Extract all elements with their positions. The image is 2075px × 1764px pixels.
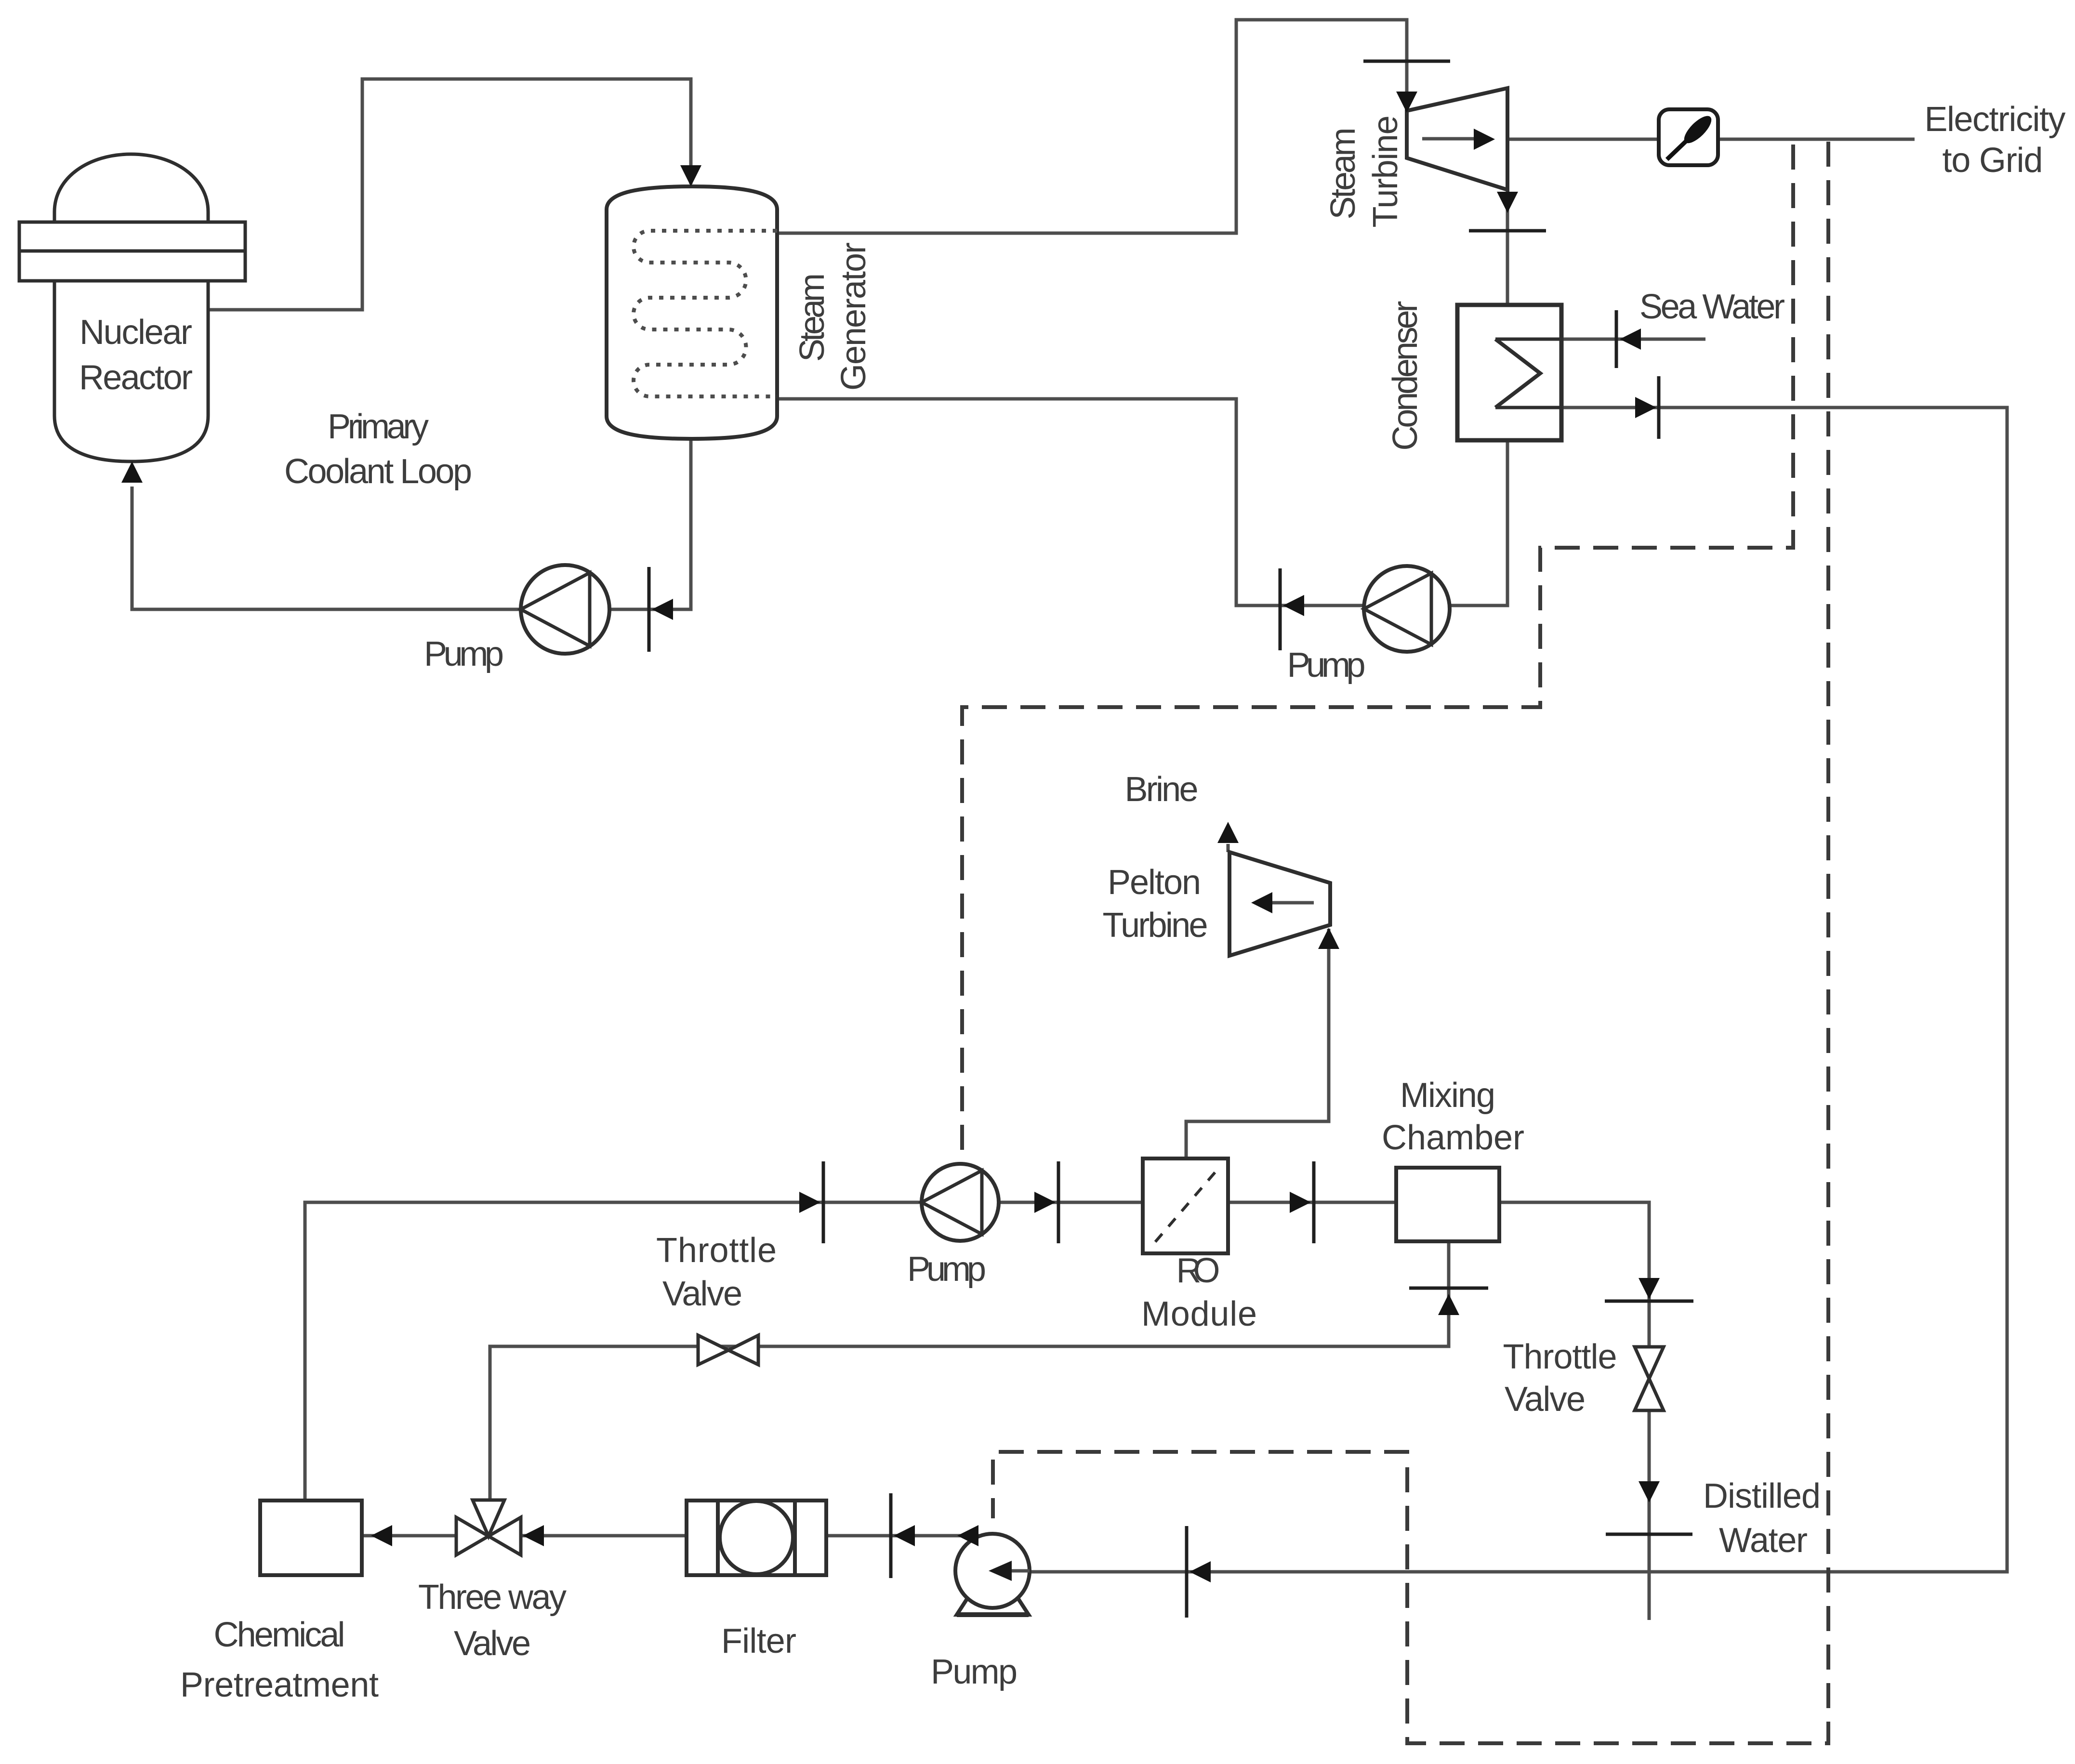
svg-text:Pump: Pump bbox=[424, 635, 504, 673]
svg-text:Valve: Valve bbox=[454, 1624, 531, 1663]
svg-text:RO: RO bbox=[1176, 1251, 1220, 1290]
svg-text:Electricity: Electricity bbox=[1925, 100, 2066, 139]
svg-text:Turbine: Turbine bbox=[1103, 906, 1208, 945]
svg-text:Throttle: Throttle bbox=[1503, 1338, 1617, 1376]
svg-text:Nuclear: Nuclear bbox=[79, 313, 192, 352]
svg-text:Valve: Valve bbox=[1505, 1380, 1586, 1419]
svg-text:Reactor: Reactor bbox=[79, 358, 193, 397]
svg-text:Coolant Loop: Coolant Loop bbox=[284, 452, 472, 491]
svg-text:Pump: Pump bbox=[931, 1653, 1018, 1691]
svg-text:Three way: Three way bbox=[418, 1578, 567, 1617]
svg-text:Turbine: Turbine bbox=[1366, 116, 1405, 228]
svg-text:Primary: Primary bbox=[328, 408, 429, 446]
svg-text:Throttle: Throttle bbox=[656, 1231, 777, 1270]
svg-text:Sea Water: Sea Water bbox=[1639, 288, 1785, 326]
svg-text:Brine: Brine bbox=[1125, 770, 1199, 809]
svg-text:Generator: Generator bbox=[834, 242, 873, 391]
svg-text:Pelton: Pelton bbox=[1108, 863, 1201, 902]
svg-text:Distilled: Distilled bbox=[1703, 1477, 1821, 1515]
svg-text:Filter: Filter bbox=[721, 1622, 796, 1660]
svg-text:Module: Module bbox=[1141, 1295, 1257, 1333]
svg-text:Condenser: Condenser bbox=[1386, 301, 1425, 451]
svg-text:Pretreatment: Pretreatment bbox=[180, 1666, 379, 1704]
svg-text:Pump: Pump bbox=[907, 1250, 986, 1289]
svg-text:Chemical: Chemical bbox=[214, 1616, 345, 1654]
svg-text:Chamber: Chamber bbox=[1382, 1119, 1524, 1157]
svg-text:Water: Water bbox=[1719, 1521, 1808, 1560]
svg-text:Pump: Pump bbox=[1287, 646, 1366, 685]
svg-text:Steam: Steam bbox=[1324, 128, 1362, 220]
svg-text:Mixing: Mixing bbox=[1400, 1076, 1495, 1115]
svg-text:Valve: Valve bbox=[662, 1275, 742, 1313]
svg-text:to Grid: to Grid bbox=[1943, 141, 2043, 180]
svg-text:Steam: Steam bbox=[793, 273, 832, 362]
